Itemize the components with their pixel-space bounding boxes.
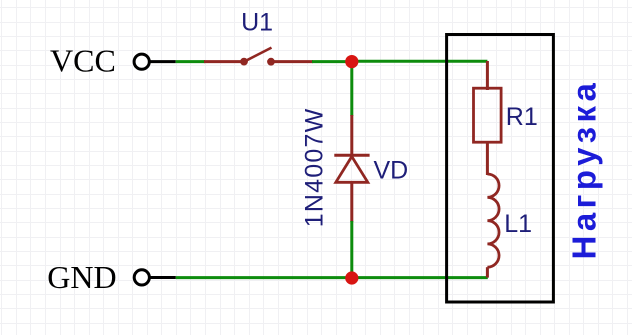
pin GND: [150, 276, 176, 279]
svg-text:U1: U1: [241, 9, 273, 37]
terminal VCC: [134, 54, 149, 69]
resistor R1 body: [474, 88, 502, 142]
switch U1 throw dot: [267, 58, 275, 66]
wire junction to load box bottom: [352, 276, 488, 279]
wire switch to junction: [312, 60, 352, 63]
wire diode to bottom junction: [350, 221, 353, 278]
diode VD anode lead: [350, 182, 353, 222]
junction top: [345, 55, 358, 68]
junction bottom: [345, 271, 358, 284]
inductor L1 body: [487, 174, 499, 267]
switch U1 blade: [245, 48, 272, 62]
svg-text:1N4007W: 1N4007W: [301, 108, 329, 228]
svg-text:R1: R1: [506, 103, 538, 131]
switch U1 pole dot: [240, 58, 248, 66]
diode VD cathode bar: [334, 154, 369, 157]
switch U1 right lead: [272, 60, 313, 63]
wire junction to load box: [352, 60, 488, 63]
switch U1 left lead: [204, 60, 241, 63]
inductor L1 bottom lead: [486, 267, 489, 277]
terminal GND: [134, 270, 149, 285]
wire resistor to inductor: [486, 142, 489, 175]
pin VCC: [150, 60, 176, 63]
load box: [447, 35, 554, 303]
wire junction down to diode: [350, 62, 353, 116]
svg-text:VD: VD: [374, 157, 409, 185]
svg-text:GND: GND: [47, 259, 116, 295]
wire VCC to switch: [176, 60, 205, 63]
svg-text:VCC: VCC: [50, 42, 116, 78]
svg-text:L1: L1: [504, 210, 532, 238]
diode VD cathode lead: [350, 115, 353, 156]
svg-text:Нагрузка: Нагрузка: [566, 79, 603, 260]
diode VD triangle: [336, 157, 368, 183]
resistor R1 top lead: [486, 61, 489, 90]
wire GND to junction: [176, 276, 352, 279]
